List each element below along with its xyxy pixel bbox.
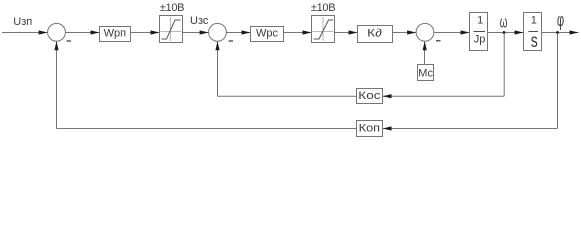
wire up to summer 2 xyxy=(217,41,219,96)
arrow into Koc xyxy=(383,94,392,98)
svg-text:Wрп: Wрп xyxy=(104,28,127,40)
svg-text:±10В: ±10В xyxy=(160,2,184,14)
svg-text:1: 1 xyxy=(477,15,483,27)
svg-text:Мс: Мс xyxy=(418,68,433,80)
arrow into Wrc xyxy=(242,30,251,34)
svg-text:Wрс: Wрс xyxy=(256,28,279,40)
block Kd xyxy=(358,26,393,43)
wire Mc up to summer 3 xyxy=(424,41,426,65)
minus at summer 2 xyxy=(229,40,233,42)
svg-text:Uзс: Uзс xyxy=(190,15,209,27)
svg-text:ω: ω xyxy=(500,13,508,32)
wire summer1 to Wrp xyxy=(65,32,99,34)
wire up to summer 1 xyxy=(56,41,58,129)
arrow into 1/s xyxy=(515,30,524,34)
wire phi node down xyxy=(557,33,559,129)
svg-text:К∂: К∂ xyxy=(367,27,382,39)
node phi xyxy=(556,31,559,34)
wire input to summer 1 xyxy=(2,32,48,34)
summing junction 2 xyxy=(209,23,227,41)
wire summer2 to Wrc xyxy=(226,32,250,34)
wire to Koc input xyxy=(383,95,505,97)
wire Kd to summer 3 xyxy=(393,32,417,34)
arrow into 1/Jp xyxy=(461,30,470,34)
svg-text:φ: φ xyxy=(557,10,564,30)
svg-text:s: s xyxy=(531,31,538,52)
arrow output xyxy=(570,30,579,34)
arrow into saturation 1 xyxy=(151,30,160,34)
svg-text:±10В: ±10В xyxy=(311,2,335,14)
svg-text:1: 1 xyxy=(531,15,537,27)
svg-text:Коп: Коп xyxy=(359,122,380,135)
arrow Mc into summer 3 xyxy=(423,41,427,50)
summing junction 1 xyxy=(48,23,66,41)
wire to Kop input xyxy=(383,128,558,130)
arrow into summer 1 xyxy=(39,30,48,34)
arrow into Kd xyxy=(349,30,358,34)
saturation block 2 xyxy=(312,16,335,43)
saturation block 1 xyxy=(160,16,183,43)
wire output from 1/s xyxy=(542,32,579,34)
block Koc xyxy=(357,89,383,104)
arrow into Kop xyxy=(383,126,392,130)
wire 1/Jp to 1/s (omega node) xyxy=(488,32,524,34)
minus at summer 1 xyxy=(67,40,71,42)
summing junction 3 xyxy=(416,23,434,41)
wire Koc output left xyxy=(218,95,357,97)
svg-text:Jр: Jр xyxy=(474,33,486,45)
minus at summer 3 xyxy=(436,40,441,42)
arrow into saturation 2 xyxy=(303,30,312,34)
wire Kop output left xyxy=(57,128,357,130)
wire saturation2 to Kd xyxy=(335,32,358,34)
block Wrp xyxy=(100,27,131,42)
arrow into Wrp xyxy=(91,30,100,34)
svg-text:Uзп: Uзп xyxy=(13,16,32,28)
arrow feedback into summer 2 xyxy=(215,41,219,50)
block 1/s xyxy=(524,13,542,52)
wire saturation1 to summer 2 xyxy=(183,32,209,34)
wire summer3 to 1/Jp xyxy=(434,32,470,34)
node omega xyxy=(503,31,506,34)
arrow into summer 3 xyxy=(407,30,416,34)
block Mc xyxy=(418,65,434,81)
block Wrc xyxy=(251,27,284,42)
arrow feedback into summer 1 xyxy=(54,41,58,50)
wire Wrc to saturation 2 xyxy=(284,32,312,34)
block 1/Jp xyxy=(470,13,488,51)
block Kop xyxy=(357,121,383,137)
wire Wrp to saturation 1 xyxy=(131,32,160,34)
wire omega node down xyxy=(503,33,505,97)
arrow into summer 2 xyxy=(200,30,209,34)
svg-text:Кос: Кос xyxy=(358,89,380,101)
